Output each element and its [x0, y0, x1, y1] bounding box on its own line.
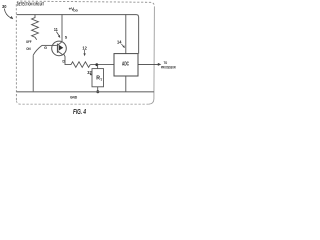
svg-text:ON: ON [26, 47, 31, 51]
ref 30 leader arrow [4, 9, 11, 19]
resistor (pull-up) [32, 15, 39, 40]
svg-text:ADC: ADC [122, 62, 129, 68]
transistor base bar [57, 44, 59, 53]
svg-text:32: 32 [87, 70, 92, 75]
resistor RT box [92, 69, 104, 87]
gate wire [42, 44, 57, 46]
output arrow to processor [138, 63, 159, 65]
svg-text:DETECTION CIRCUIT: DETECTION CIRCUIT [17, 2, 44, 7]
svg-text:14: 14 [117, 39, 122, 44]
svg-text:30: 30 [2, 4, 7, 9]
detection circuit dashed box [16, 1, 154, 100]
svg-text:S: S [65, 36, 68, 40]
resistor (drain) zigzag [71, 62, 90, 68]
svg-text:PROCESSOR: PROCESSOR [161, 65, 176, 69]
transistor arrow [59, 45, 63, 51]
wire RT to ground [97, 87, 99, 92]
svg-text:FIG. 4: FIG. 4 [73, 109, 86, 116]
switch blade [33, 45, 42, 55]
source wire to rail [61, 15, 63, 42]
ADC box U1 [114, 54, 138, 76]
ground rail [17, 91, 155, 93]
ref 12 leader arrow [84, 50, 86, 54]
svg-text:12: 12 [82, 45, 87, 50]
junction node dot [95, 63, 98, 66]
drain wire [63, 54, 71, 65]
wire gate branch to ground [32, 55, 34, 92]
svg-text:G: G [44, 46, 47, 50]
wire node to RT [97, 65, 99, 69]
wire resistor to ADC [90, 64, 114, 66]
wire VDD to ADC [125, 15, 127, 54]
svg-text:GND: GND [70, 95, 77, 100]
wire ADC to ground [125, 76, 127, 92]
ref 32 leader arrow [89, 73, 92, 76]
svg-text:OFF: OFF [26, 40, 32, 44]
svg-text:11: 11 [54, 27, 58, 32]
svg-text:T: T [100, 78, 103, 82]
transistor emitter stroke [58, 51, 63, 55]
ref 11 leader arrow [56, 32, 59, 37]
svg-text:DD: DD [73, 9, 78, 13]
transistor collector stroke [58, 42, 62, 46]
VDD rail [17, 15, 139, 54]
transistor Q1 circle [52, 41, 67, 56]
ground junction dot [96, 90, 99, 93]
ref 14 leader arrow [121, 44, 123, 46]
